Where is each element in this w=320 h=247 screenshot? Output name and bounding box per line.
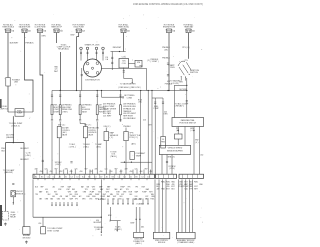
svg-text:COIL: COIL: [122, 57, 126, 59]
svg-text:ENGINE FUSE: ENGINE FUSE: [163, 27, 176, 29]
svg-text:439 PNK/BLK: 439 PNK/BLK: [62, 105, 73, 107]
svg-text:PARK/NEUTRAL: PARK/NEUTRAL: [181, 119, 195, 122]
svg-text:987: 987: [55, 169, 58, 171]
svg-text:DISTRIBUTOR: DISTRIBUTOR: [85, 79, 100, 81]
svg-text:VEHICLE SPEED: VEHICLE SPEED: [168, 148, 183, 150]
svg-text:SWITCH: SWITCH: [190, 72, 198, 74]
svg-text:BLK/WHT: BLK/WHT: [10, 43, 19, 45]
svg-text:VSS: VSS: [98, 191, 101, 193]
svg-text:452: 452: [60, 171, 63, 173]
svg-text:BLK/WHT: BLK/WHT: [94, 222, 103, 224]
svg-text:( B ): ( B ): [138, 102, 142, 104]
svg-text:( 450 ): ( 450 ): [25, 155, 31, 157]
svg-text:TIMES ECM-B: TIMES ECM-B: [2, 27, 15, 29]
svg-text:416: 416: [140, 171, 143, 173]
svg-text:FUEL: FUEL: [92, 196, 96, 198]
svg-text:PUMP: PUMP: [120, 187, 124, 189]
svg-text:( CTRL ): ( CTRL ): [69, 147, 76, 149]
svg-text:( CLSTR ): ( CLSTR ): [171, 83, 179, 85]
svg-text:PPL: PPL: [185, 60, 188, 62]
svg-text:WHT: WHT: [113, 196, 116, 198]
svg-text:( DATA ): ( DATA ): [136, 202, 143, 205]
svg-text:450: 450: [40, 171, 43, 173]
svg-text:ORN: ORN: [82, 199, 85, 201]
svg-text:RELAY: RELAY: [10, 216, 17, 219]
svg-text:BLK/WHT: BLK/WHT: [98, 199, 107, 201]
svg-text:POS ( 2 ): POS ( 2 ): [129, 137, 138, 139]
svg-text:PNK/BLK: PNK/BLK: [25, 43, 34, 45]
svg-text:RED/WHT: RED/WHT: [113, 47, 122, 49]
svg-text:WHT: WHT: [194, 189, 198, 191]
svg-text:TPS: TPS: [75, 199, 78, 201]
svg-text:(GAGES): (GAGES): [6, 136, 14, 139]
svg-text:439: 439: [45, 189, 48, 191]
svg-text:GRN ( 8 ): GRN ( 8 ): [167, 157, 175, 159]
svg-text:121 WHT: 121 WHT: [103, 116, 112, 118]
svg-text:( CMFI ): ( CMFI ): [54, 109, 60, 111]
svg-text:B/W: B/W: [108, 215, 112, 217]
svg-text:450: 450: [200, 155, 203, 157]
svg-text:INJECTOR: INJECTOR: [54, 107, 63, 109]
svg-text:TPS: TPS: [116, 194, 119, 196]
svg-text:REF: REF: [61, 187, 64, 189]
svg-text:BLK: BLK: [35, 187, 38, 189]
svg-text:ORN: ORN: [45, 199, 48, 201]
svg-text:REF: REF: [72, 189, 75, 191]
svg-text:PNK: PNK: [58, 189, 61, 191]
svg-text:RUN: RUN: [170, 67, 175, 69]
svg-text:OIL: OIL: [162, 139, 164, 141]
svg-text:FUEL: FUEL: [151, 199, 155, 201]
svg-text:( RELAY ): ( RELAY ): [175, 105, 184, 108]
svg-text:PUMP RLY: PUMP RLY: [0, 108, 9, 110]
svg-text:( GND ): ( GND ): [95, 229, 101, 231]
svg-text:461 ORN: 461 ORN: [134, 199, 142, 201]
svg-text:( RELAY ): ( RELAY ): [114, 228, 122, 231]
svg-text:ORN: ORN: [41, 36, 46, 38]
svg-text:PRES: PRES: [161, 142, 165, 144]
svg-text:IGN: IGN: [86, 187, 89, 189]
svg-text:IGN: IGN: [92, 189, 95, 191]
svg-text:B/W: B/W: [131, 223, 135, 225]
svg-text:TPS: TPS: [35, 194, 38, 196]
svg-text:( SIG ): ( SIG ): [96, 147, 102, 149]
svg-text:450: 450: [130, 171, 133, 173]
svg-text:( 2 ): ( 2 ): [147, 60, 151, 62]
svg-text:416: 416: [80, 171, 83, 173]
svg-text:452: 452: [150, 171, 153, 173]
svg-text:PUMP: PUMP: [17, 113, 23, 115]
svg-text:CLSTR FUSE: CLSTR FUSE: [34, 27, 46, 29]
svg-text:( 39 ): ( 39 ): [164, 49, 169, 51]
svg-text:987: 987: [85, 169, 88, 171]
svg-text:PPL ( 6 ): PPL ( 6 ): [182, 47, 190, 49]
svg-text:121: 121: [45, 169, 48, 171]
svg-text:VSS: VSS: [62, 199, 65, 201]
svg-text:TPS: TPS: [85, 189, 88, 191]
svg-text:WHT: WHT: [149, 191, 152, 193]
svg-text:BLK/WHT: BLK/WHT: [20, 159, 29, 161]
svg-text:GRY ( 4 ): GRY ( 4 ): [58, 124, 66, 126]
svg-text:( 1 ): ( 1 ): [110, 137, 114, 139]
svg-text:450: 450: [100, 171, 103, 173]
svg-text:453 RED/BLK: 453 RED/BLK: [123, 118, 136, 120]
svg-text:PNK/BLK: PNK/BLK: [162, 57, 171, 59]
svg-text:REF: REF: [41, 187, 44, 189]
svg-text:EST: EST: [166, 189, 169, 191]
svg-text:( FAN SW ): ( FAN SW ): [4, 171, 13, 174]
svg-text:IGN: IGN: [52, 196, 55, 198]
svg-text:450: 450: [70, 171, 73, 173]
svg-text:( VSS ): ( VSS ): [169, 168, 175, 170]
svg-text:EST: EST: [54, 191, 57, 193]
svg-text:BLK: BLK: [48, 194, 51, 196]
svg-text:IGN-E FUSE: IGN-E FUSE: [74, 27, 85, 29]
svg-text:IGN ( 3 ): IGN ( 3 ): [104, 126, 111, 128]
svg-text:( EST ): ( EST ): [55, 164, 61, 166]
svg-text:BLK: BLK: [69, 194, 72, 196]
svg-text:121: 121: [75, 169, 78, 171]
svg-text:FUEL PUMP: FUEL PUMP: [62, 107, 71, 109]
svg-text:439: 439: [95, 169, 98, 171]
svg-text:439: 439: [60, 196, 63, 198]
svg-text:GROUND: GROUND: [22, 237, 31, 239]
svg-text:WHT: WHT: [68, 191, 71, 193]
svg-text:FUEL: FUEL: [194, 181, 198, 183]
svg-text:WHT: WHT: [103, 194, 106, 196]
svg-text:( TACH ): ( TACH ): [110, 155, 117, 158]
svg-text:TPS: TPS: [135, 187, 138, 189]
svg-text:MODULE: MODULE: [158, 242, 166, 244]
svg-text:( VAC ): ( VAC ): [83, 146, 89, 149]
svg-text:( 4 ): ( 4 ): [195, 142, 198, 144]
svg-text:PUMP: PUMP: [154, 108, 160, 110]
svg-text:987: 987: [145, 169, 148, 171]
svg-text:WHT: WHT: [66, 189, 69, 191]
svg-text:COIL: COIL: [122, 63, 126, 65]
svg-text:416: 416: [110, 171, 113, 173]
svg-text:SENSOR BUFFER: SENSOR BUFFER: [167, 151, 183, 153]
svg-text:FUEL: FUEL: [72, 196, 76, 198]
svg-text:CONTROL: CONTROL: [88, 130, 96, 132]
svg-text:IGN: IGN: [120, 196, 123, 198]
svg-text:452: 452: [120, 171, 123, 173]
svg-text:SOLENOID: SOLENOID: [88, 132, 97, 134]
svg-text:( 5 BLK 4 ): ( 5 BLK 4 ): [11, 125, 20, 127]
svg-text:DRIVER: DRIVER: [54, 112, 61, 114]
svg-text:GAGES FUSE: GAGES FUSE: [19, 26, 31, 29]
svg-text:439: 439: [125, 169, 128, 171]
svg-text:POSITION SWITCH: POSITION SWITCH: [179, 123, 196, 125]
svg-text:439 PNK/BLK: 439 PNK/BLK: [82, 105, 93, 107]
svg-text:CONTROL: CONTROL: [62, 130, 70, 132]
svg-text:TPS: TPS: [126, 189, 129, 191]
svg-text:416: 416: [143, 120, 146, 122]
svg-text:TIMES ECM-I: TIMES ECM-I: [118, 27, 130, 29]
svg-text:TO TACHOMETER: TO TACHOMETER: [120, 83, 136, 86]
svg-text:TIMES BAT: TIMES BAT: [184, 26, 194, 29]
svg-text:987: 987: [115, 169, 118, 171]
svg-text:WHT: WHT: [106, 189, 109, 191]
svg-text:IGN: IGN: [135, 196, 138, 198]
svg-text:FUEL: FUEL: [161, 181, 165, 183]
svg-text:439: 439: [65, 169, 68, 171]
svg-text:439: 439: [99, 105, 102, 107]
svg-text:CONN: CONN: [127, 97, 133, 99]
svg-text:EST: EST: [121, 194, 124, 196]
svg-text:( TRANSFER CASE ): ( TRANSFER CASE ): [177, 241, 194, 244]
svg-text:( REF HIGH ) ( REF LOW ): ( REF HIGH ) ( REF LOW ): [118, 87, 141, 89]
svg-text:WHT: WHT: [106, 191, 109, 193]
svg-text:PUMP: PUMP: [95, 194, 99, 196]
svg-text:VSS: VSS: [89, 199, 92, 201]
svg-text:( 3 WHT ): ( 3 WHT ): [151, 61, 159, 63]
svg-text:PNK: PNK: [75, 194, 78, 196]
svg-text:ORN: ORN: [83, 191, 86, 193]
svg-text:BLK: BLK: [129, 194, 132, 196]
svg-text:( TEST ): ( TEST ): [62, 112, 68, 114]
svg-text:PUMP: PUMP: [90, 191, 94, 193]
svg-text:BLK/WHT: BLK/WHT: [20, 148, 29, 150]
svg-text:PRIME CONN: PRIME CONN: [62, 109, 72, 111]
svg-text:ICM: ICM: [137, 62, 141, 64]
svg-text:FUEL: FUEL: [54, 105, 58, 107]
svg-text:TIMES STOP: TIMES STOP: [51, 27, 63, 29]
svg-text:1993 ENGINE CONTROL WIRING DIA: 1993 ENGINE CONTROL WIRING DIAGRAM (4.3L…: [133, 3, 203, 6]
svg-text:WHT: WHT: [92, 187, 95, 189]
svg-text:PNK/BLK: PNK/BLK: [123, 126, 131, 128]
svg-text:EST: EST: [146, 196, 149, 198]
svg-text:B/W: B/W: [71, 35, 75, 37]
svg-text:452: 452: [90, 171, 93, 173]
svg-text:416: 416: [50, 171, 53, 173]
svg-text:439: 439: [35, 169, 38, 171]
svg-text:( A B ): ( A B ): [131, 142, 136, 145]
svg-text:PUMP: PUMP: [142, 191, 146, 193]
svg-text:RELAY (A/C): RELAY (A/C): [58, 48, 69, 51]
svg-text:SOLENOID: SOLENOID: [82, 109, 91, 111]
svg-text:VSS: VSS: [118, 199, 121, 201]
svg-text:TEST CONN: TEST CONN: [47, 230, 59, 232]
svg-text:( ALDL ): ( ALDL ): [135, 242, 142, 245]
svg-text:SPARK PLUGS: SPARK PLUGS: [85, 43, 101, 46]
svg-text:GRY ( 7 ): GRY ( 7 ): [84, 124, 92, 126]
svg-text:450: 450: [38, 223, 41, 225]
svg-text:TPS: TPS: [127, 187, 130, 189]
svg-text:SENSOR: SENSOR: [16, 193, 24, 195]
svg-text:ORN: ORN: [123, 191, 126, 193]
svg-text:121: 121: [135, 169, 138, 171]
